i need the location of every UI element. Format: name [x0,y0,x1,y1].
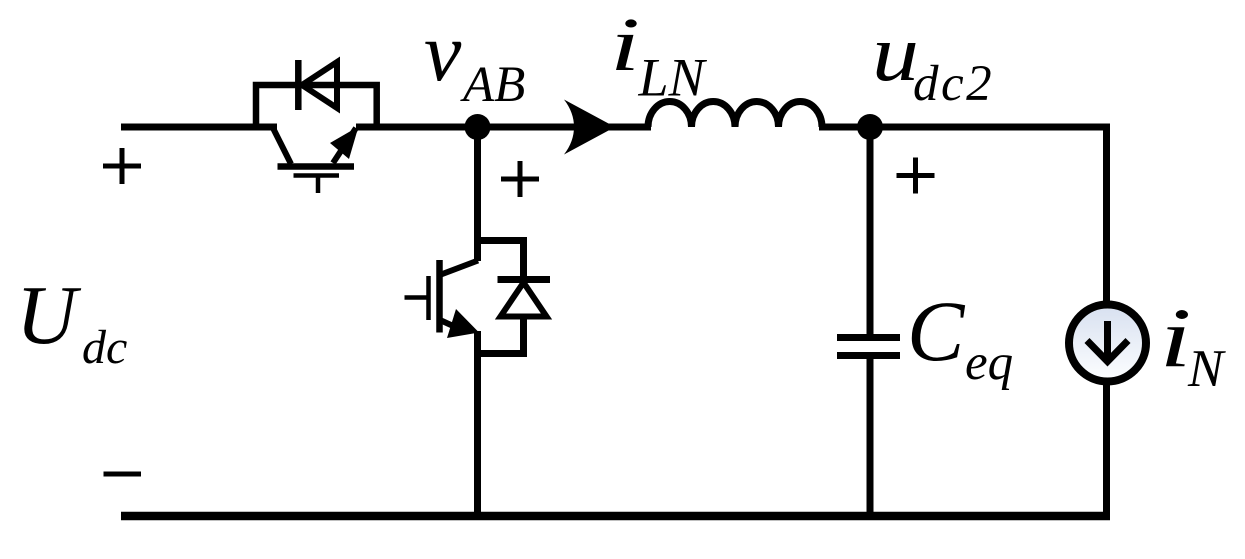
svg-text:i: i [1160,291,1192,385]
svg-text:i: i [610,3,640,87]
transistor Q2 body bar [436,260,443,333]
diode D2 triangle [501,283,547,317]
transistor Q2 emitter arrow [447,309,479,338]
inductor L [648,102,822,127]
svg-text:dc2: dc2 [913,56,994,112]
transistor Q2 gate lead [405,295,427,300]
wire: Q1 emitter to node A and inductor [356,124,651,131]
diode D1 (antiparallel, cathode bar) [295,60,302,110]
svg-text:v: v [424,6,462,99]
plus sign at v_AB [501,161,539,197]
bottom rail [121,512,1110,521]
svg-text:LN: LN [638,48,708,108]
wire: top-left from U_dc+ to Q1 collector [121,124,277,131]
node A (v_AB) [465,114,491,140]
transistor Q1 emitter arrow [330,127,359,160]
current source i_N circle [1069,305,1146,382]
transistor Q1 body bar [278,163,355,170]
svg-text:C: C [907,283,966,379]
wire: capacitor top leg [867,127,874,336]
current direction arrow i_LN [564,100,615,155]
transistor Q1 emitter diagonal [333,128,356,163]
diode D2 cathode bar [498,276,551,283]
plus sign at U_dc [103,148,141,184]
svg-text:u: u [872,10,919,98]
wire: right rail [1103,127,1110,516]
svg-text:dc: dc [82,321,127,374]
wire: inductor to node B to top-right corner [819,124,1110,131]
wire: antiparallel diode loop around Q1 [256,85,377,127]
transistor Q1 collector diagonal [272,126,291,164]
node B (u_dc2) [857,114,883,140]
capacitor C_eq bottom plate [837,352,900,359]
wire: node A down to Q2 collector [474,127,481,261]
transistor Q2 gate bar [426,276,431,320]
wire: D2 bottom jog [478,314,524,354]
current source arrow shaft [1104,321,1111,358]
transistor Q2 collector diagonal [441,261,478,275]
current source arrow chevron [1087,341,1128,362]
capacitor C_eq top plate [837,334,900,341]
wire: jog to D2 top [478,241,524,278]
transistor Q1 gate stub [316,176,321,193]
wire: Q2 emitter down to bottom rail [474,331,481,516]
svg-text:eq: eq [965,335,1013,391]
svg-text:AB: AB [460,57,525,113]
transistor Q2 emitter diagonal [440,320,462,330]
transistor Q1 gate bar [294,173,340,178]
wire: capacitor bottom leg [867,357,874,516]
minus sign at U_dc [104,472,142,477]
svg-text:U: U [16,269,82,362]
svg-text:N: N [1187,340,1226,398]
diode D1 triangle [302,62,337,108]
plus sign at u_dc2 [897,158,935,194]
